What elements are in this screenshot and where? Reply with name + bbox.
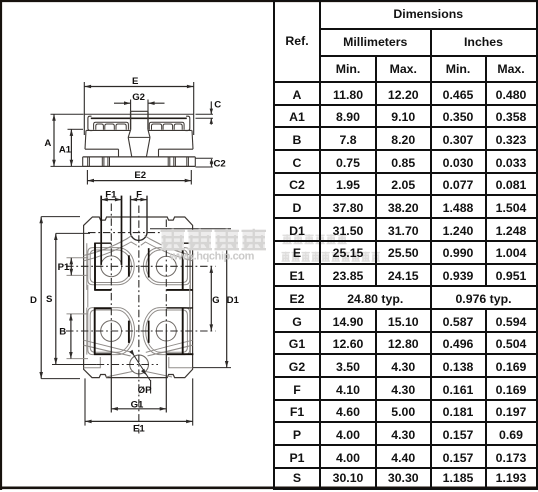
svg-text:E1: E1 xyxy=(133,423,145,434)
svg-text:P1: P1 xyxy=(58,262,70,273)
svg-text:E2: E2 xyxy=(134,170,146,181)
svg-text:C2: C2 xyxy=(213,158,225,169)
svg-text:A1: A1 xyxy=(59,144,72,155)
svg-text:G: G xyxy=(212,295,219,306)
svg-text:F: F xyxy=(136,189,142,200)
svg-text:ØP: ØP xyxy=(138,385,152,396)
svg-text:G1: G1 xyxy=(131,399,144,410)
svg-text:E: E xyxy=(132,76,139,87)
svg-text:D: D xyxy=(30,295,37,306)
svg-text:A: A xyxy=(44,138,51,149)
svg-text:B: B xyxy=(59,327,66,338)
svg-text:www.hqchip.com: www.hqchip.com xyxy=(169,251,255,263)
svg-text:S: S xyxy=(46,294,53,305)
svg-text:F1: F1 xyxy=(105,189,117,200)
svg-text:C: C xyxy=(214,100,221,111)
svg-text:G2: G2 xyxy=(132,92,145,103)
svg-text:D1: D1 xyxy=(227,295,240,306)
